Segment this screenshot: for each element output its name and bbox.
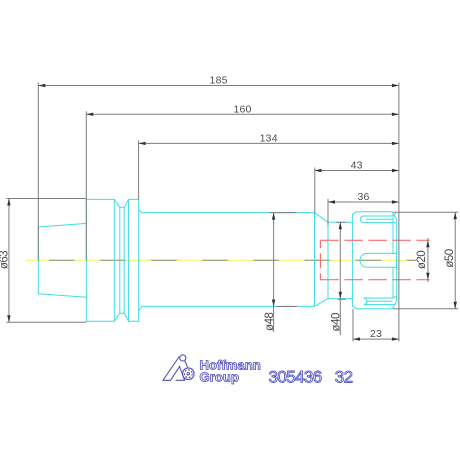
svg-text:36: 36 <box>357 191 369 203</box>
svg-text:305436: 305436 <box>269 368 322 387</box>
svg-text:ø50: ø50 <box>444 249 456 267</box>
svg-text:32: 32 <box>335 368 353 387</box>
svg-text:ø20: ø20 <box>416 251 428 269</box>
svg-text:ø40: ø40 <box>330 313 342 331</box>
svg-text:ø63: ø63 <box>0 251 10 269</box>
svg-text:43: 43 <box>351 160 363 172</box>
svg-text:Group: Group <box>200 369 240 384</box>
svg-text:134: 134 <box>260 132 278 144</box>
svg-text:23: 23 <box>370 328 382 340</box>
svg-text:160: 160 <box>233 103 251 115</box>
svg-text:185: 185 <box>210 75 228 87</box>
svg-text:ø48: ø48 <box>264 313 276 331</box>
